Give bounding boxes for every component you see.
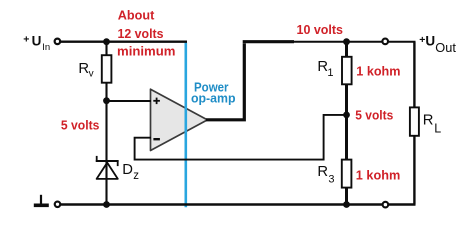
- svg-text:10 volts: 10 volts: [297, 22, 344, 37]
- svg-text:Out: Out: [435, 40, 456, 55]
- wire: top-left from input terminal to blue line: [60, 41, 187, 43]
- label Dz: [122, 162, 139, 182]
- zener diode Dz: [96, 156, 119, 179]
- wire: R1-R3 divider vertical: [345, 42, 348, 205]
- svg-text:5 volts: 5 volts: [355, 108, 393, 123]
- wire: left vertical branch through Rv and Dz: [105, 42, 107, 205]
- junction: input top node: [103, 38, 110, 45]
- junction: 5V divider midpoint node: [343, 112, 350, 119]
- svg-text:1 kohm: 1 kohm: [356, 167, 401, 182]
- label: About 12 volts minimum: [117, 8, 176, 59]
- terminal: output bottom: [383, 202, 389, 208]
- resistor R1: [342, 57, 352, 85]
- svg-text:z: z: [133, 170, 139, 182]
- op-amp U1: [151, 89, 208, 150]
- junction: 10V output top node: [343, 38, 350, 45]
- label R1: [317, 59, 333, 79]
- svg-text:v: v: [89, 68, 94, 79]
- svg-text:In: In: [42, 42, 50, 53]
- resistor R3: [342, 160, 352, 188]
- svg-text:3: 3: [328, 174, 334, 186]
- ground: [34, 195, 49, 207]
- svg-text:U: U: [32, 34, 42, 49]
- svg-text:minimum: minimum: [117, 44, 176, 59]
- resistor Rv: [102, 55, 112, 82]
- terminal: +U Out: [382, 39, 388, 45]
- op-amp - input symbol: [153, 138, 160, 140]
- wire: op-amp output up to top rail: [206, 43, 244, 119]
- svg-text:1 kohm: 1 kohm: [356, 64, 400, 79]
- label +U Out: [419, 33, 456, 55]
- resistor RL: [410, 107, 419, 135]
- svg-text:D: D: [122, 162, 133, 178]
- junction: zener anode at bottom rail: [103, 201, 110, 208]
- svg-text:+: +: [23, 34, 29, 46]
- svg-text:L: L: [434, 121, 441, 135]
- svg-text:R: R: [78, 61, 89, 77]
- label RL: [423, 113, 441, 136]
- label R3: [317, 164, 334, 186]
- wire: bottom rail: [61, 203, 416, 206]
- wire: right-most vertical through RL: [413, 42, 415, 205]
- blue highlight line: [185, 43, 188, 208]
- terminal: ground input: [55, 202, 61, 208]
- svg-text:12 volts: 12 volts: [118, 26, 164, 41]
- label: Power op-amp: [191, 81, 236, 106]
- junction: divider bottom node: [343, 201, 350, 208]
- terminal: +U In: [55, 39, 61, 45]
- svg-text:1: 1: [327, 67, 333, 79]
- wire: feedback from - input to 5V node: [135, 115, 347, 160]
- svg-text:U: U: [425, 33, 435, 48]
- svg-text:5 volts: 5 volts: [61, 118, 100, 133]
- wire: Rv bottom node to op-amp + input: [107, 100, 152, 102]
- junction: Rv bottom / 5V reference node: [103, 97, 110, 104]
- svg-text:About: About: [118, 8, 155, 23]
- op-amp + input symbol: [153, 98, 160, 105]
- wire: top-right rail to output: [243, 40, 294, 43]
- svg-text:op-amp: op-amp: [191, 91, 236, 105]
- label +U In: [23, 34, 50, 53]
- svg-text:R: R: [317, 164, 328, 180]
- svg-text:R: R: [423, 113, 434, 129]
- label Rv: [78, 61, 93, 79]
